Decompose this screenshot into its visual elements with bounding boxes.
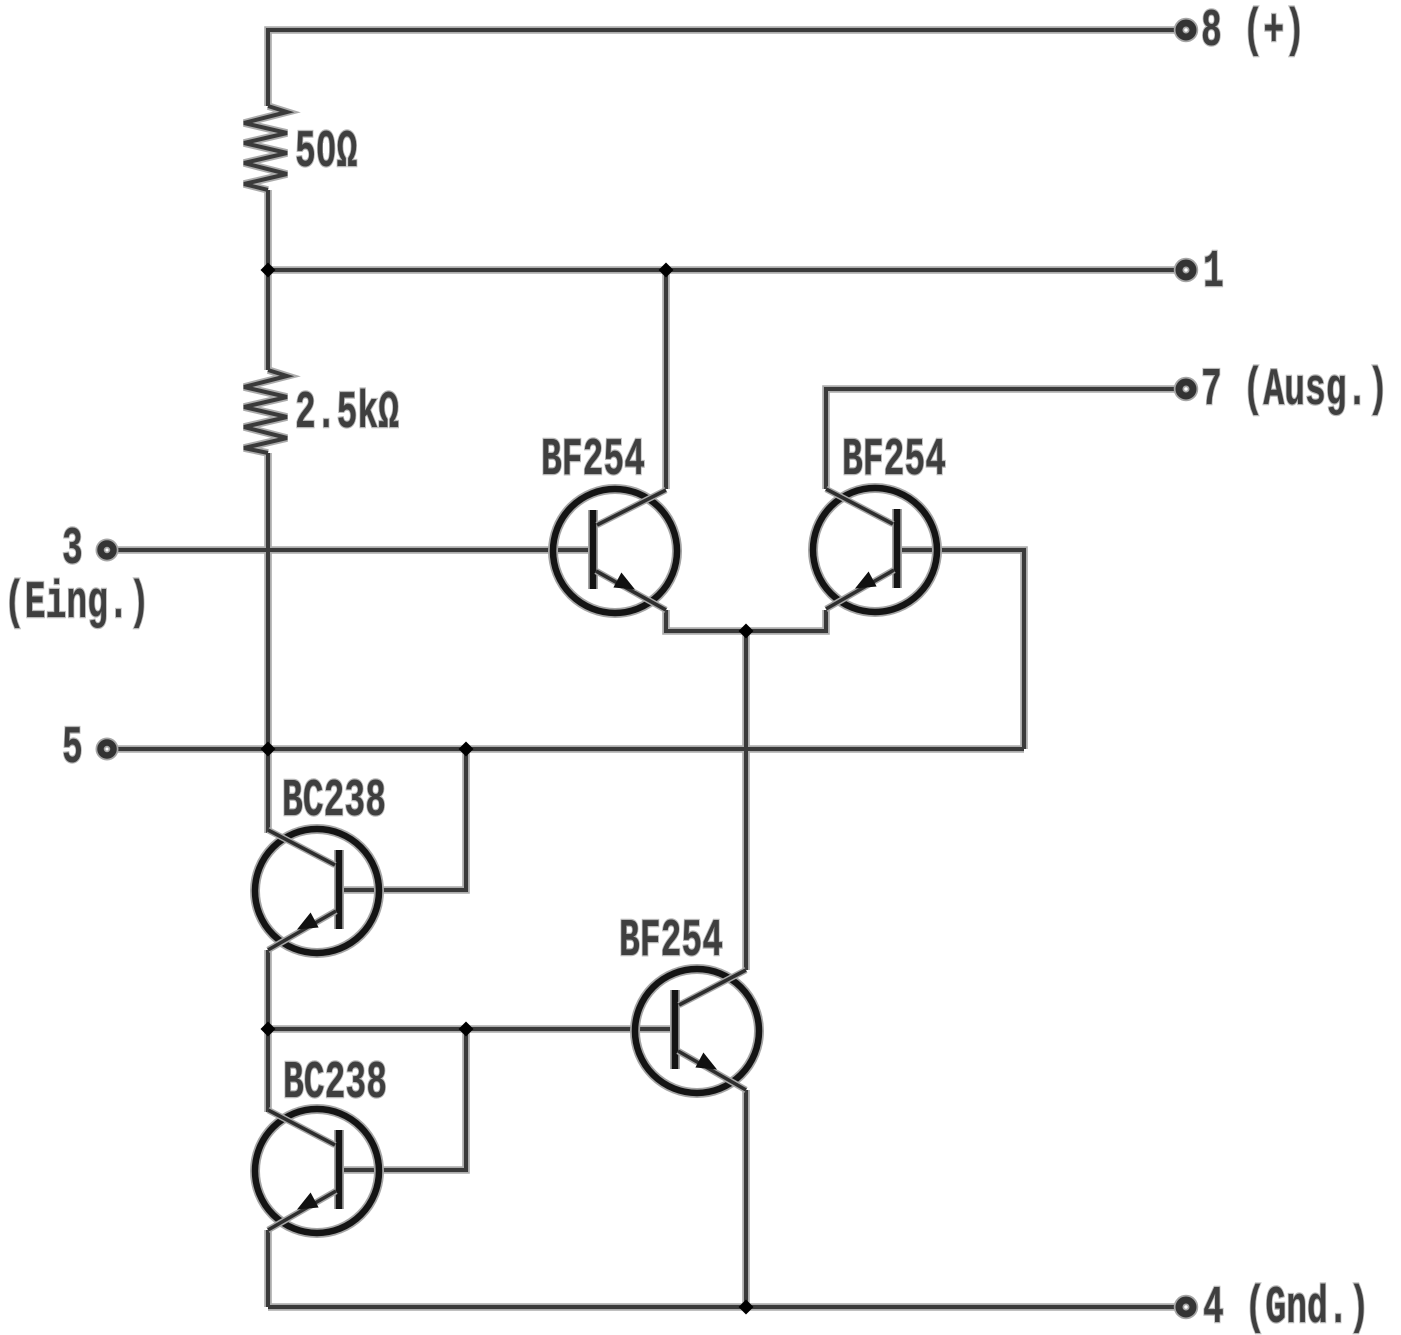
terminal pin 5 circle [101, 743, 114, 756]
transistor Q1 BF254 (upper left) collector stroke [597, 490, 666, 525]
transistor Q2 BF254 (upper right) emitter arrow [855, 572, 877, 589]
transistor Q2 BF254 (upper right) body circle [813, 488, 937, 612]
svg-text:BF254: BF254 [842, 430, 946, 490]
transistor Q3 BF254 (lower middle) emitter arrow [695, 1053, 717, 1070]
transistor Q4 BC238 (upper) emitter stroke [268, 911, 336, 950]
svg-text:5: 5 [62, 718, 83, 778]
transistor Q2 BF254 (upper right) base bar [892, 509, 902, 588]
transistor Q5 BC238 (lower) emitter arrow [297, 1193, 319, 1210]
svg-text:4 (Gnd.): 4 (Gnd.) [1203, 1278, 1369, 1335]
svg-text:BC238: BC238 [283, 1053, 387, 1113]
junction node Q5 base riser on mid line [459, 1022, 474, 1037]
junction node Q1 collector on node-1 line [659, 263, 674, 278]
terminal pin 1 circle [1179, 263, 1193, 277]
svg-text:7 (Ausg.): 7 (Ausg.) [1201, 360, 1388, 420]
terminal pin 7 (Ausg.) circle [1179, 382, 1193, 396]
junction node Q4 base riser on node-5 line [459, 742, 474, 757]
transistor Q5 BC238 (lower) collector stroke [268, 1110, 335, 1145]
junction node rail/node-1 junction [261, 263, 276, 278]
svg-text:BF254: BF254 [541, 430, 645, 490]
junction node rail/node-5 junction [261, 742, 276, 757]
transistor Q3 BF254 (lower middle) base bar [670, 990, 680, 1069]
transistor Q2 BF254 (upper right) emitter stroke [826, 570, 894, 609]
junction node rail/mid-line junction [261, 1022, 276, 1037]
transistor Q4 BC238 (upper) body circle [255, 829, 379, 953]
svg-text:BC238: BC238 [282, 771, 386, 831]
transistor Q4 BC238 (upper) collector stroke [268, 830, 335, 865]
svg-text:2.5kΩ: 2.5kΩ [295, 383, 399, 443]
transistor Q5 BC238 (lower) body circle [255, 1109, 379, 1233]
junction node emitter tie junction [739, 624, 754, 639]
svg-text:8 (+): 8 (+) [1201, 1, 1305, 61]
transistor Q5 BC238 (lower) base bar [334, 1130, 344, 1209]
transistor Q3 BF254 (lower middle) emitter stroke [678, 1051, 746, 1090]
transistor Q3 BF254 (lower middle) body circle [635, 969, 759, 1093]
transistor Q4 BC238 (upper) base bar [334, 850, 344, 929]
transistor Q5 BC238 (lower) emitter stroke [268, 1191, 336, 1230]
svg-text:BF254: BF254 [619, 911, 723, 971]
transistor Q2 BF254 (upper right) collector stroke [826, 489, 893, 524]
terminal pin 3 (Eing.) circle [101, 544, 114, 557]
terminal pin 8 (+) circle [1179, 23, 1193, 37]
svg-text:(Eing.): (Eing.) [4, 573, 150, 633]
terminal pin 4 (Gnd.) circle [1179, 1300, 1193, 1314]
transistor Q1 BF254 (upper left) body circle [553, 489, 677, 613]
transistor Q1 BF254 (upper left) emitter arrow [613, 573, 635, 590]
transistor Q1 BF254 (upper left) base bar [588, 510, 598, 589]
junction node Q3 emitter on ground line [739, 1300, 754, 1315]
transistor Q3 BF254 (lower middle) collector stroke [679, 970, 746, 1005]
svg-text:3: 3 [62, 519, 83, 579]
transistor Q4 BC238 (upper) emitter arrow [297, 913, 319, 930]
transistor Q1 BF254 (upper left) emitter stroke [596, 571, 666, 610]
svg-text:1: 1 [1203, 242, 1224, 302]
